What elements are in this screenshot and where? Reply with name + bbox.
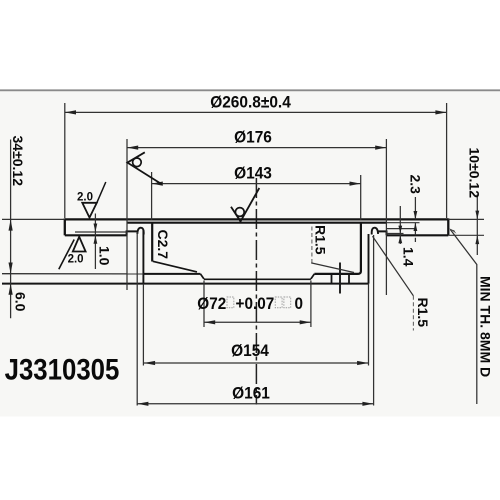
leader R1.5 lower	[373, 236, 414, 296]
disc top surface	[65, 218, 449, 220]
svg-text:R1.5: R1.5	[313, 225, 329, 255]
ext line dia260.8 left	[64, 103, 66, 218]
dim line 1.4	[399, 206, 401, 244]
bolt hole centerline	[339, 263, 341, 294]
hat inner wall left	[151, 223, 153, 262]
svg-text:2.0: 2.0	[68, 254, 84, 266]
undercut extension right upper	[387, 228, 416, 230]
hat inner wall right with fillet	[314, 223, 361, 274]
ext line dia154 right	[368, 284, 370, 366]
leader MIN TH	[449, 228, 457, 234]
hat outer wall right	[368, 234, 370, 284]
left undercut step	[127, 231, 138, 235]
svg-text:10±0.12: 10±0.12	[467, 148, 483, 199]
inner chamfer C2.7 taper	[153, 261, 197, 272]
leader R1.5 upper	[311, 227, 313, 263]
right fillet hook	[372, 228, 378, 235]
surface symbol on dia176 ext	[127, 152, 161, 184]
undercut extension left	[75, 231, 127, 233]
ext line dia143 right	[360, 175, 362, 220]
undercut extension right lower	[387, 233, 404, 235]
svg-text:34±0.12: 34±0.12	[10, 136, 26, 187]
svg-text:Ø154: Ø154	[231, 341, 269, 360]
svg-text:2.0: 2.0	[77, 191, 93, 203]
dim line 34 left	[10, 140, 12, 319]
bolt hole left edge	[331, 275, 333, 284]
bore chamfer right	[311, 274, 315, 279]
disc right edge	[447, 218, 449, 235]
flange top extension right	[386, 222, 419, 224]
dim 6.0 arrow	[9, 284, 13, 295]
bore far edge	[204, 278, 311, 280]
svg-text:J3310305: J3310305	[5, 353, 120, 386]
hat flange top face	[127, 222, 387, 224]
ext line dia72 right	[310, 281, 312, 328]
disc left edge	[64, 218, 66, 235]
svg-text:C2.7: C2.7	[155, 230, 171, 260]
svg-text:Ø176: Ø176	[234, 128, 272, 147]
frame line	[0, 89, 500, 91]
bore chamfer left	[200, 274, 204, 279]
svg-text:Ø260.8±0.4: Ø260.8±0.4	[210, 93, 291, 112]
surface triangle lower 2.0	[73, 237, 86, 252]
text dia72 line	[197, 294, 303, 313]
dim line 1.0	[94, 214, 96, 270]
surface triangle upper 2.0	[82, 203, 97, 218]
svg-text:Ø72: Ø72	[197, 294, 226, 313]
ext line dia176 left	[126, 139, 128, 290]
svg-text:2.3: 2.3	[408, 175, 424, 195]
ext line dia161 right	[373, 235, 375, 406]
dim line dia143	[152, 183, 361, 185]
svg-text:Ø161: Ø161	[232, 384, 270, 403]
dim line dia176	[127, 147, 386, 149]
disc top extension left	[2, 218, 65, 220]
hat outer wall left	[142, 230, 144, 284]
disc top extension right	[448, 218, 484, 220]
ext line dia176 right	[385, 139, 387, 295]
disc bottom left face	[65, 234, 127, 236]
svg-text:0: 0	[295, 294, 304, 313]
svg-text:1.4: 1.4	[401, 247, 417, 267]
svg-text:+0.07: +0.07	[236, 294, 275, 313]
dim line dia161	[137, 403, 373, 405]
dim line 10 right	[476, 195, 478, 256]
dim line dia154	[144, 362, 368, 364]
ext line dia260.8 right	[446, 103, 448, 218]
dim line dia260.8	[65, 111, 447, 113]
flange inner face left	[143, 273, 200, 275]
ext line dia143 left	[151, 172, 153, 220]
svg-text:1.0: 1.0	[97, 246, 113, 266]
surface symbol on flange face	[231, 188, 259, 221]
ext line dia72 left	[203, 281, 205, 328]
right undercut step	[378, 231, 387, 235]
dim line 2.3	[414, 197, 416, 219]
svg-text:Ø143: Ø143	[234, 164, 272, 183]
bolt hole right edge	[348, 275, 350, 284]
svg-text:6.0: 6.0	[13, 292, 29, 312]
svg-text:R1.5: R1.5	[415, 298, 431, 328]
mounting bottom face	[2, 283, 369, 285]
ext line dia161 left	[136, 232, 138, 406]
disc bottom extension right	[448, 234, 484, 236]
svg-text:MIN TH. 8MM D: MIN TH. 8MM D	[478, 276, 494, 377]
flange face extension left	[2, 273, 143, 275]
disc bottom right face	[387, 234, 449, 236]
ext line dia154 left	[142, 284, 144, 366]
dim line dia72	[204, 321, 311, 323]
centerline	[255, 178, 257, 405]
left fillet hook	[137, 228, 143, 235]
